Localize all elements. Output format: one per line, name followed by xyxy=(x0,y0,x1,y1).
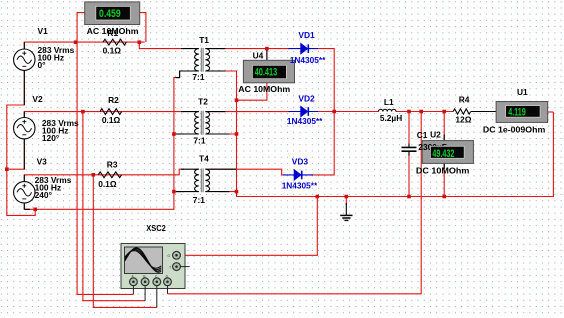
svg-text:7:1: 7:1 xyxy=(193,136,205,146)
wire meter U3 left lead xyxy=(77,13,85,42)
wire V1 bottom jog to left neutral xyxy=(7,71,35,216)
label R3 xyxy=(98,159,118,189)
wire scope tap C vertical from phase3 xyxy=(93,175,157,308)
node phase3 scope-C tap junction xyxy=(92,173,96,177)
node phase1 scope-A tap junction xyxy=(74,40,78,44)
label R2 xyxy=(102,95,121,125)
diode VD1 xyxy=(289,43,319,54)
diode VD3 xyxy=(283,170,313,181)
svg-text:C1: C1 xyxy=(417,130,428,140)
label T4 xyxy=(193,153,209,205)
svg-text:T4: T4 xyxy=(199,153,209,163)
svg-text:T2: T2 xyxy=(198,96,208,106)
AC source V3 xyxy=(14,175,35,210)
node T4 secondary-bottom return junction xyxy=(235,190,239,194)
wire V2 bottom jog xyxy=(7,139,25,169)
multimeter U1 (DC ammeter) xyxy=(496,102,548,123)
svg-text:R2: R2 xyxy=(108,95,119,105)
wire L1 to R4 output bus xyxy=(396,111,453,113)
multimeter U3 (across R1) xyxy=(85,2,140,25)
svg-text:V3: V3 xyxy=(37,157,48,167)
svg-text:12Ω: 12Ω xyxy=(455,114,471,124)
svg-text:T: T xyxy=(169,266,171,270)
svg-text:40.413: 40.413 xyxy=(255,67,278,79)
wire VD1 cathode down to output node xyxy=(317,49,334,112)
label L1 xyxy=(380,97,402,123)
transformer T2 xyxy=(176,111,229,135)
svg-text:XSC2: XSC2 xyxy=(146,223,166,233)
svg-text:VD1: VD1 xyxy=(298,30,315,40)
node neutral V2-bottom junction xyxy=(5,167,9,171)
svg-text:VD3: VD3 xyxy=(292,157,309,167)
wire U4 plus lead xyxy=(266,49,268,61)
svg-text:0.459: 0.459 xyxy=(99,8,121,20)
wire V3 bottom to primary neutral riser xyxy=(24,71,184,209)
svg-text:AC 10MOhm: AC 10MOhm xyxy=(238,84,290,94)
wire T4 secondary top step to VD3 xyxy=(210,169,286,175)
svg-text:5.2µH: 5.2µH xyxy=(380,113,402,123)
wire ground stem red part xyxy=(345,197,347,206)
inductor L1 xyxy=(379,109,396,111)
node T4 primary-bottom neutral junction xyxy=(172,190,176,194)
label VD3 xyxy=(282,157,318,191)
node rectifier output VD1/VD2/VD3 junction xyxy=(332,110,336,114)
svg-text:G: G xyxy=(168,254,171,258)
node neutral V3-bottom junction xyxy=(33,208,37,212)
transformer T1 xyxy=(176,48,226,78)
multimeter U2 (DC output voltage) xyxy=(418,135,473,170)
svg-text:1N4305**: 1N4305** xyxy=(282,181,318,191)
svg-text:1N4305**: 1N4305** xyxy=(287,116,323,126)
label C1 xyxy=(417,130,428,140)
svg-text:240°: 240° xyxy=(35,190,52,200)
multimeter U4 (T1 secondary voltage) xyxy=(243,50,294,83)
node scope-D output bus junction xyxy=(419,110,423,114)
svg-text:V2: V2 xyxy=(32,94,43,104)
label V2 xyxy=(32,94,79,143)
node U2-minus return bus junction xyxy=(442,195,446,199)
svg-text:DC 10MOhm: DC 10MOhm xyxy=(416,165,470,175)
ground xyxy=(340,203,352,220)
node scope-G return bus junction xyxy=(316,195,320,199)
svg-text:4.119: 4.119 xyxy=(508,107,526,119)
wire C1 bottom lead xyxy=(408,152,410,197)
label U2 xyxy=(416,129,470,175)
AC source V2 xyxy=(14,112,35,170)
wire VD2 cathode to L1 node xyxy=(317,111,379,113)
wire scope channel D riser xyxy=(168,112,422,294)
node phase1 meter-U3/T1 junction xyxy=(138,40,142,44)
wire T4 primary bottom to neutral xyxy=(174,191,184,193)
label U3 meter mode xyxy=(87,26,139,36)
svg-text:1N4305**: 1N4305** xyxy=(290,55,326,65)
label VD1 xyxy=(290,30,326,65)
svg-text:0°: 0° xyxy=(38,60,46,70)
svg-text:VD2: VD2 xyxy=(298,93,315,103)
svg-text:7:1: 7:1 xyxy=(193,195,205,205)
svg-text:120°: 120° xyxy=(42,133,59,143)
node ground return bus junction xyxy=(345,195,349,199)
svg-text:L1: L1 xyxy=(384,97,394,107)
label XSC2 xyxy=(146,223,166,233)
wire U2 minus lead xyxy=(443,163,445,196)
label U4 xyxy=(238,50,290,94)
wire phase1 V1-top to meter-right-lead xyxy=(24,42,144,48)
node U4-minus secondary-return junction xyxy=(235,98,239,102)
node U2-plus output bus junction xyxy=(442,110,446,114)
label T1 xyxy=(192,35,209,82)
wire meter U3 right lead xyxy=(140,13,146,42)
node U4-plus T1-secondary junction xyxy=(265,47,269,51)
wire scope tap B vertical from phase2 xyxy=(83,112,145,301)
wire U2 plus lead xyxy=(443,112,445,141)
wire VD3 cathode up to output node xyxy=(311,112,334,175)
label R4 xyxy=(455,95,471,125)
svg-text:R4: R4 xyxy=(459,95,470,105)
node C1-bottom return bus junction xyxy=(407,195,411,199)
svg-text:U4: U4 xyxy=(253,50,264,60)
svg-text:V1: V1 xyxy=(38,26,49,36)
wire scope tap A vertical from phase1 xyxy=(77,42,133,294)
wire phase1 step down to T1 primary top xyxy=(139,42,183,49)
wire T4 secondary bottom to chain xyxy=(218,191,237,193)
resistor R2 xyxy=(100,109,122,115)
wire U4 minus lead xyxy=(237,83,267,100)
node T2 secondary-bottom return junction xyxy=(235,132,239,136)
svg-text:R1: R1 xyxy=(107,28,118,38)
node C1-top output bus junction xyxy=(407,110,411,114)
wire T1 secondary top to VD1 xyxy=(210,48,291,50)
label V1 xyxy=(38,26,75,70)
transformer T4 xyxy=(176,169,236,193)
svg-text:T1: T1 xyxy=(199,35,209,45)
svg-text:0.1Ω: 0.1Ω xyxy=(102,115,121,125)
wire T2 secondary bottom to chain xyxy=(218,133,237,135)
AC source V1 xyxy=(14,42,35,105)
wire scope G return xyxy=(180,197,317,256)
svg-text:R3: R3 xyxy=(107,159,118,169)
svg-text:7:1: 7:1 xyxy=(192,72,204,82)
node T2 primary-bottom neutral junction xyxy=(172,132,176,136)
diode VD2 xyxy=(289,106,319,117)
oscilloscope XSC2 xyxy=(121,244,190,308)
label U1 xyxy=(483,87,545,134)
svg-text:DC 1e-009Ohm: DC 1e-009Ohm xyxy=(483,124,545,134)
wire U1 output right lead xyxy=(548,111,554,113)
resistor R1 xyxy=(103,39,126,45)
wire T2 primary bottom to neutral xyxy=(174,133,184,135)
svg-text:0.1Ω: 0.1Ω xyxy=(103,45,122,55)
label R1 designator xyxy=(103,28,122,56)
wire phase3 V3-top to T4 step xyxy=(24,169,184,182)
label VD2 xyxy=(287,93,323,126)
svg-text:49.432: 49.432 xyxy=(432,148,454,160)
resistor R3 xyxy=(98,172,121,178)
svg-text:U2: U2 xyxy=(430,129,441,139)
wire C1 top lead xyxy=(408,112,410,148)
svg-text:0.1Ω: 0.1Ω xyxy=(98,179,117,189)
wire phase2 V2-top to T2 primary xyxy=(24,112,184,118)
svg-text:U1: U1 xyxy=(517,87,528,97)
label V3 xyxy=(35,157,72,200)
wire T1 secondary bottom down chain xyxy=(218,71,553,197)
capacitor C1 xyxy=(402,144,417,156)
node phase2 scope-B tap junction xyxy=(81,110,85,114)
label T2 xyxy=(193,96,208,145)
wire T2 secondary top to VD2 xyxy=(210,111,291,113)
resistor R4 xyxy=(453,109,496,114)
